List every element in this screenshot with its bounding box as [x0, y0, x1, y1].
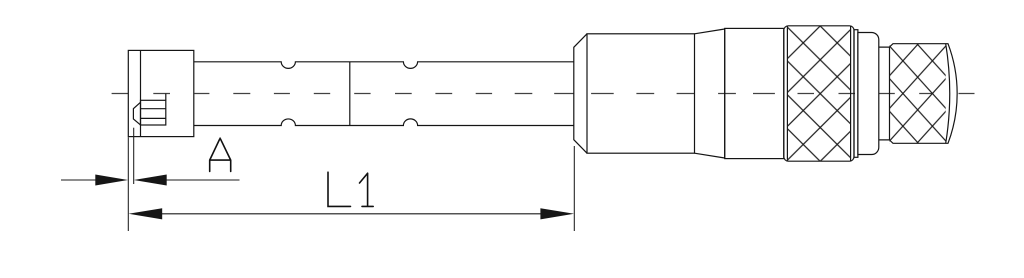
dim A left arrowhead [95, 175, 128, 186]
label A [210, 138, 231, 171]
dim L1 left arrowhead [129, 208, 163, 219]
dim A right arrowhead [134, 175, 167, 186]
extension line head left face [127, 137, 129, 231]
thimble crosshatch [787, 26, 850, 161]
shaft bottom edge with notches [194, 119, 574, 126]
thin ring [854, 30, 858, 158]
extension line pin tip [133, 128, 135, 184]
head inner face line [140, 50, 142, 136]
ratchet knob outline [890, 44, 958, 144]
shaft joint line [349, 62, 351, 126]
contact pin body [141, 100, 166, 125]
barrel section [725, 28, 784, 158]
extension line cone [573, 146, 575, 231]
collar [858, 33, 879, 155]
pin lines [141, 109, 166, 119]
dim L1 line [161, 213, 542, 215]
knob cap line [946, 44, 950, 144]
knob crosshatch [890, 44, 946, 144]
label L1 : L [328, 172, 351, 206]
thimble knurl outline [784, 26, 854, 161]
main body sleeve [587, 34, 695, 153]
dim A left line [61, 179, 96, 181]
centerline [112, 93, 975, 95]
measuring head body [128, 50, 194, 136]
label L1 : 1 [360, 173, 374, 206]
cone shoulder [574, 34, 587, 153]
dim L1 right arrowhead [540, 208, 574, 219]
thimble knurl bands [787, 26, 850, 161]
pin tip wedge [133, 102, 140, 125]
dim A right line [166, 179, 240, 181]
shaft top edge with notches [194, 62, 574, 69]
spindle stub [879, 47, 890, 140]
pin stem tick [165, 94, 167, 101]
taper section [695, 29, 725, 158]
